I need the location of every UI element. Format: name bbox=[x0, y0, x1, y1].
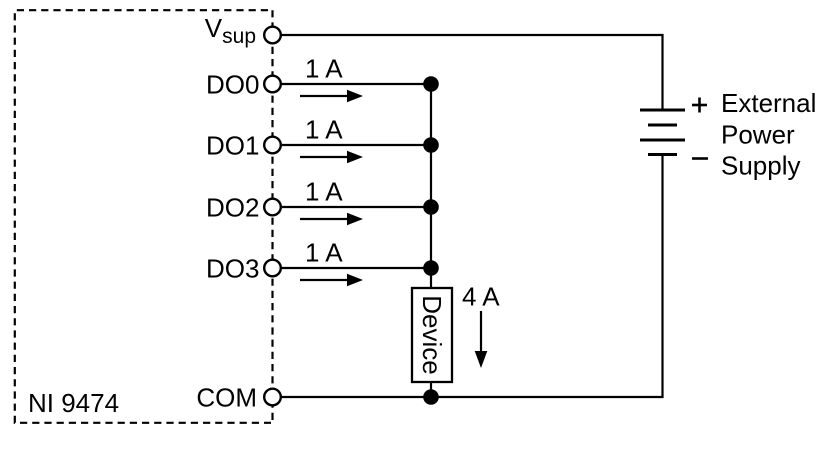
junction COM node bbox=[423, 389, 439, 405]
battery plate (short) bbox=[648, 124, 677, 127]
terminal DO3 bbox=[264, 260, 281, 277]
svg-text:Power: Power bbox=[721, 119, 795, 149]
wire Device to COM line bbox=[430, 382, 432, 397]
svg-text:1 A: 1 A bbox=[305, 177, 343, 207]
wire DO2 to bus bbox=[281, 206, 431, 208]
svg-text:Device: Device bbox=[417, 295, 447, 374]
svg-text:4 A: 4 A bbox=[462, 282, 500, 312]
svg-text:DO0: DO0 bbox=[206, 69, 259, 99]
label External Power Supply bbox=[721, 88, 816, 181]
terminal COM bbox=[264, 389, 281, 406]
junction DO3 node bbox=[423, 260, 439, 276]
plus sign bbox=[692, 98, 707, 113]
svg-text:DO2: DO2 bbox=[206, 192, 259, 222]
svg-text:1 A: 1 A bbox=[305, 54, 343, 84]
battery plate (long) bbox=[640, 139, 685, 142]
wire DO3 to bus bbox=[281, 267, 431, 269]
NI 9474 module boundary (dashed box, left/top/bottom edges) bbox=[15, 10, 271, 423]
wire vertical bus DO0 to Device bbox=[430, 84, 432, 288]
current arrow 4 A (down) bbox=[475, 311, 488, 368]
svg-text:DO3: DO3 bbox=[206, 253, 259, 283]
dashed right edge of module (vertical bus through terminals) bbox=[271, 10, 273, 423]
battery plate + (long, top) bbox=[640, 109, 685, 112]
wire Vsup to battery (top) bbox=[281, 35, 663, 110]
svg-text:Supply: Supply bbox=[721, 151, 801, 181]
svg-text:DO1: DO1 bbox=[206, 130, 259, 160]
battery plate - (short, bottom) bbox=[648, 153, 677, 156]
svg-text:NI 9474: NI 9474 bbox=[28, 388, 119, 418]
terminal DO2 bbox=[264, 199, 281, 216]
terminal DO1 bbox=[264, 137, 281, 154]
svg-text:1 A: 1 A bbox=[305, 115, 343, 145]
terminal Vsup bbox=[264, 27, 281, 44]
minus sign bbox=[692, 157, 708, 160]
junction DO0 node bbox=[423, 76, 439, 92]
current arrow DO2 bbox=[300, 213, 363, 226]
junction DO1 node bbox=[423, 137, 439, 153]
svg-text:External: External bbox=[721, 88, 816, 118]
load box Device bbox=[412, 288, 452, 382]
current arrow DO0 bbox=[300, 90, 363, 103]
junction DO2 node bbox=[423, 199, 439, 215]
wire COM to battery (bottom) bbox=[281, 155, 663, 398]
current arrow DO1 bbox=[300, 151, 363, 164]
wire DO1 to bus bbox=[281, 144, 431, 146]
terminal DO0 bbox=[264, 76, 281, 93]
wire DO0 to bus bbox=[281, 83, 431, 85]
svg-text:COM: COM bbox=[196, 382, 257, 412]
current arrow DO3 bbox=[300, 274, 363, 287]
svg-text:1 A: 1 A bbox=[305, 238, 343, 268]
